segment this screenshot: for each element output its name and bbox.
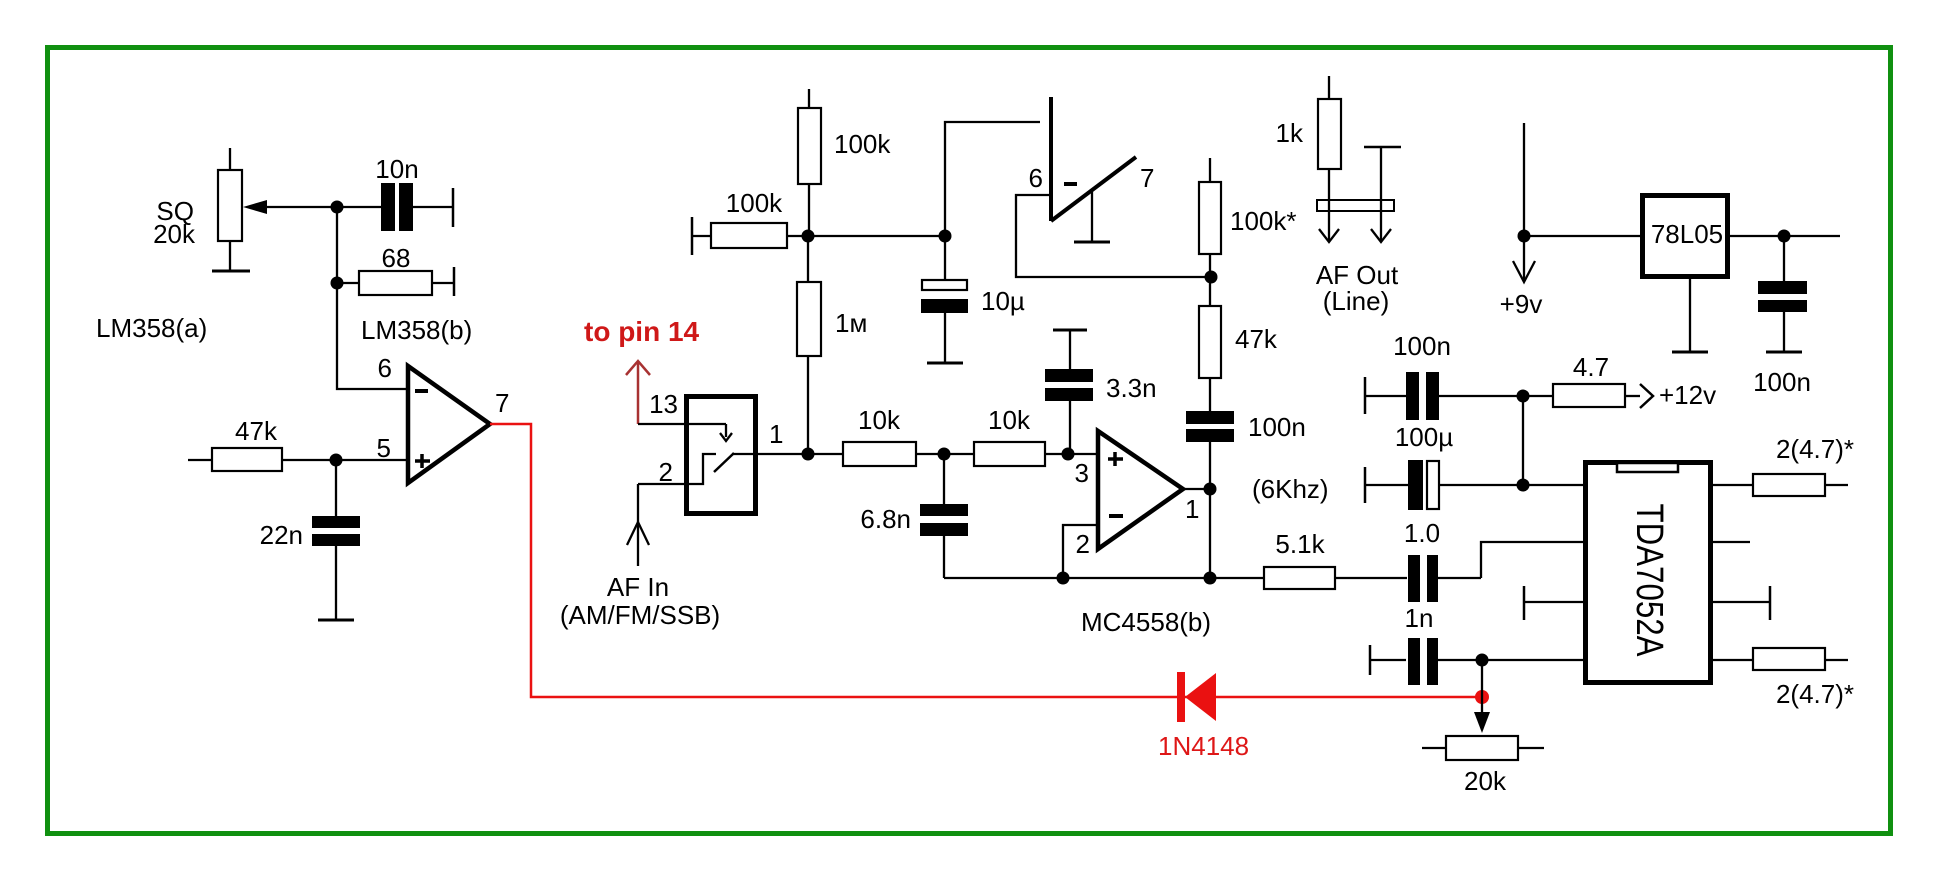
capacitor 100n output xyxy=(1753,236,1811,397)
svg-text:6.8n: 6.8n xyxy=(860,504,911,534)
svg-text:10k: 10k xyxy=(858,405,901,435)
wire 78L05 gnd xyxy=(1689,277,1691,352)
capacitor 1n xyxy=(1370,638,1585,685)
svg-text:1: 1 xyxy=(769,419,783,449)
svg-text:100k: 100k xyxy=(834,129,891,159)
resistor 47k vertical xyxy=(1199,277,1278,411)
svg-text:2(4.7)*: 2(4.7)* xyxy=(1776,679,1854,709)
wire vcc link xyxy=(1522,396,1524,485)
wire pin 13 xyxy=(638,424,732,441)
wire switch contact to pin 1 xyxy=(732,453,808,455)
op-amp U2 MC4558(b) xyxy=(1098,431,1183,549)
svg-text:2(4.7)*: 2(4.7)* xyxy=(1776,434,1854,464)
wire pin 6 feedback xyxy=(1016,195,1211,277)
node junction 10u xyxy=(939,230,952,243)
svg-text:7: 7 xyxy=(495,388,509,418)
ground xyxy=(1074,190,1110,242)
svg-text:1.0: 1.0 xyxy=(1404,518,1440,548)
wire 9v to regulator xyxy=(1524,235,1642,237)
resistor 5.1k xyxy=(1210,529,1407,589)
op-amp MC4558(a) partial xyxy=(1029,97,1155,221)
switch box xyxy=(687,397,756,514)
capacitor 100n filter xyxy=(1186,411,1306,578)
svg-text:AF In: AF In xyxy=(607,572,669,602)
svg-text:100µ: 100µ xyxy=(1395,422,1453,452)
svg-text:3.3n: 3.3n xyxy=(1106,373,1157,403)
wire pin 2 xyxy=(1063,525,1098,578)
svg-text:4.7: 4.7 xyxy=(1573,352,1609,382)
svg-text:100k*: 100k* xyxy=(1230,206,1297,236)
resistor 1M xyxy=(797,236,867,454)
label SQ 20k xyxy=(153,196,196,249)
svg-text:(AM/FM/SSB): (AM/FM/SSB) xyxy=(560,600,720,630)
svg-text:(Line): (Line) xyxy=(1323,286,1389,316)
svg-text:5.1k: 5.1k xyxy=(1275,529,1325,559)
capacitor 3.3n xyxy=(1045,330,1157,455)
wire to pin 6 xyxy=(337,207,408,389)
svg-text:5: 5 xyxy=(377,433,391,463)
svg-text:1N4148: 1N4148 xyxy=(1158,731,1249,761)
svg-text:10µ: 10µ xyxy=(981,286,1025,316)
capacitor 10n xyxy=(337,154,453,231)
svg-text:10k: 10k xyxy=(988,405,1031,435)
svg-text:10n: 10n xyxy=(375,154,418,184)
wire to wiper xyxy=(1474,660,1490,733)
potentiometer SQ 20k xyxy=(218,148,242,271)
wire to half op-amp xyxy=(945,122,1040,236)
svg-text:47k: 47k xyxy=(1235,324,1278,354)
wire output pin 1 xyxy=(1183,488,1210,490)
node pin1 junction xyxy=(802,448,815,461)
node B junction xyxy=(331,277,344,290)
svg-text:100n: 100n xyxy=(1248,412,1306,442)
node junction 100k/1M xyxy=(802,230,815,243)
node junction 9v xyxy=(1518,230,1531,243)
capacitor 10u electrolytic xyxy=(921,236,1025,363)
svg-text:6: 6 xyxy=(378,353,392,383)
IC TDA7052A xyxy=(1586,463,1711,683)
resistor 68 xyxy=(337,243,454,296)
arrow to pin 14 xyxy=(584,316,700,424)
ground xyxy=(318,619,354,622)
resistor 100k vertical xyxy=(798,89,891,236)
IC 78L05 xyxy=(1643,196,1728,277)
node junction 1n xyxy=(1476,654,1489,667)
svg-text:to pin 14: to pin 14 xyxy=(584,316,700,347)
wire red squelch net xyxy=(490,424,1476,697)
svg-text:20k: 20k xyxy=(153,219,196,249)
svg-text:100n: 100n xyxy=(1393,331,1451,361)
svg-text:68: 68 xyxy=(382,243,411,273)
svg-text:(6Khz): (6Khz) xyxy=(1252,474,1329,504)
node junction output xyxy=(1204,483,1217,496)
potentiometer 20k volume xyxy=(1422,736,1544,796)
node junction 5v xyxy=(1778,230,1791,243)
ground xyxy=(212,270,250,273)
svg-text:13: 13 xyxy=(649,389,678,419)
resistor 2(4.7)* bottom xyxy=(1710,648,1854,709)
ground xyxy=(1766,351,1802,354)
AF In arrow xyxy=(560,484,720,630)
wire TDA gnd pin right xyxy=(1710,586,1770,620)
svg-text:1м: 1м xyxy=(835,308,867,338)
node junction pin2 xyxy=(1057,572,1070,585)
ground xyxy=(927,362,963,365)
wire feedback bottom xyxy=(944,577,1209,579)
resistor 10k first xyxy=(808,405,974,466)
wire 5v output xyxy=(1728,235,1840,237)
node junction vcc xyxy=(1517,479,1530,492)
wiper arrow wire xyxy=(243,200,337,214)
capacitor 100u electrolytic xyxy=(1365,422,1523,510)
capacitor 22n xyxy=(260,460,360,620)
resistor 1k xyxy=(1276,76,1341,240)
svg-text:LM358(a): LM358(a) xyxy=(96,313,207,343)
wire pin 2 path xyxy=(638,454,716,484)
op-amp U1 LM358(b) xyxy=(408,366,490,483)
svg-text:100k: 100k xyxy=(726,188,783,218)
node red junction xyxy=(1475,690,1489,704)
diode 1N4148 xyxy=(1158,672,1249,761)
svg-text:2: 2 xyxy=(1076,529,1090,559)
node junction pin3 xyxy=(1062,448,1075,461)
svg-text:+9v: +9v xyxy=(1500,289,1543,319)
node junction 6.8n xyxy=(938,448,951,461)
resistor 100k* xyxy=(1199,158,1297,277)
wire TDA pin vcc xyxy=(1523,484,1585,486)
svg-text:1k: 1k xyxy=(1276,118,1304,148)
svg-text:1n: 1n xyxy=(1405,603,1434,633)
svg-text:6: 6 xyxy=(1029,163,1043,193)
svg-text:MC4558(b): MC4558(b) xyxy=(1081,607,1211,637)
node junction 12v xyxy=(1517,390,1530,403)
resistor 4.7 supply xyxy=(1523,352,1716,410)
svg-text:2: 2 xyxy=(659,457,673,487)
switch blade xyxy=(714,453,734,472)
svg-text:LM358(b): LM358(b) xyxy=(361,315,472,345)
resistor 2(4.7)* top xyxy=(1710,434,1854,496)
AF Out terminal xyxy=(1316,147,1401,316)
svg-text:20k: 20k xyxy=(1464,766,1507,796)
wire TDA right stub xyxy=(1710,541,1750,543)
svg-text:3: 3 xyxy=(1075,458,1089,488)
svg-text:22n: 22n xyxy=(260,520,303,550)
node A junction xyxy=(331,201,344,214)
resistor 47k input xyxy=(188,416,408,471)
svg-text:78L05: 78L05 xyxy=(1651,219,1723,249)
svg-text:47k: 47k xyxy=(235,416,278,446)
resistor 100k horizontal xyxy=(692,188,945,255)
svg-text:7: 7 xyxy=(1140,163,1154,193)
capacitor 100n supply xyxy=(1365,331,1523,420)
node C junction xyxy=(330,454,343,467)
capacitor 1.0 coupling xyxy=(1404,518,1585,602)
svg-text:1: 1 xyxy=(1185,494,1199,524)
node junction feedback xyxy=(1204,572,1217,585)
capacitor 6.8n xyxy=(860,454,968,578)
svg-text:100n: 100n xyxy=(1753,367,1811,397)
resistor 10k second xyxy=(974,405,1098,466)
wire TDA gnd pin left xyxy=(1524,586,1585,620)
svg-text:TDA7052A: TDA7052A xyxy=(1628,504,1670,658)
svg-text:+12v: +12v xyxy=(1659,380,1716,410)
arrow +9v supply xyxy=(1500,123,1543,319)
node junction 100k*/47k xyxy=(1205,271,1218,284)
ground xyxy=(1672,351,1708,354)
